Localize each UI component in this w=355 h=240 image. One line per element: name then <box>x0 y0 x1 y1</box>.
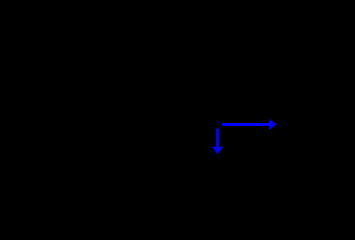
wire vertical blue arrow <box>212 128 224 154</box>
wire horizontal blue arrow <box>222 119 277 130</box>
